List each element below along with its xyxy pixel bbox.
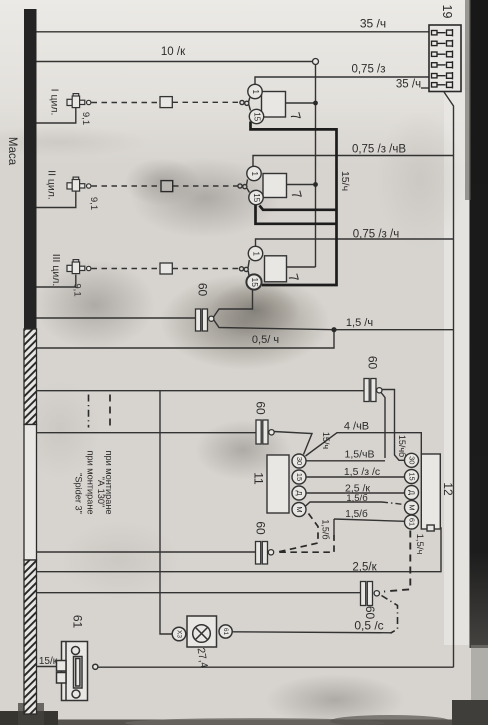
label 60 low-left (253, 521, 267, 535)
label 1 coil II (250, 171, 259, 176)
svg-text:15: 15 (408, 472, 417, 480)
svg-text:61: 61 (222, 628, 229, 636)
terminal М of 12 (408, 504, 417, 510)
svg-text:2,5/к: 2,5/к (352, 562, 377, 574)
junction node coil I feed (313, 101, 318, 106)
wire bus to connector 60 low-right (37, 592, 361, 594)
thick wire 15/ч chain (251, 122, 337, 286)
wire 1,5/б upper dashdot part (382, 502, 405, 505)
label I цил. (49, 89, 61, 116)
svg-text:1: 1 (251, 251, 260, 256)
terminal 15 of 12 (408, 472, 417, 480)
svg-text:Д: Д (408, 490, 417, 495)
wire connector 60 to regulator 11 (274, 432, 313, 455)
legend dashdot sample Spider3 (88, 395, 90, 428)
ground bus hatched section 1 (24, 329, 37, 425)
svg-text:"А 130": "А 130" (96, 477, 106, 508)
svg-text:III цил.: III цил. (50, 254, 62, 287)
wire bus to connector 60 coil feed (37, 317, 196, 319)
svg-text:19: 19 (440, 5, 454, 19)
wire 0,75/з/ч coil III (256, 239, 454, 247)
lamp terminal Х3 (175, 630, 182, 638)
legend text при монтиране Spider 3 (74, 450, 96, 514)
label 60 mid-right (365, 356, 379, 370)
scan black edge right (465, 0, 488, 700)
label 60 low-right (363, 606, 377, 620)
terminal Д of 12 (408, 490, 417, 495)
svg-text:0,75 /з: 0,75 /з (351, 64, 385, 76)
svg-text:60: 60 (365, 356, 379, 370)
dashed wire plug I HT lead (92, 101, 240, 103)
connector 60 mid-left (256, 420, 274, 444)
wire plug III ground (37, 275, 76, 288)
svg-text:12: 12 (441, 482, 455, 496)
label 60 mid-left (253, 401, 267, 415)
label 7 coil II (288, 189, 304, 200)
label 1 coil III (251, 251, 260, 256)
open terminal 10/к node (313, 59, 319, 65)
label Маса (6, 137, 18, 166)
dashed wire net А130 12 to connector low (384, 531, 410, 592)
svg-text:1,5 /ч: 1,5 /ч (346, 317, 373, 329)
label 27,4 (195, 647, 210, 669)
svg-text:60: 60 (253, 521, 267, 535)
svg-text:61: 61 (70, 615, 84, 629)
label II цил. (46, 170, 58, 200)
svg-text:4 /чВ: 4 /чВ (344, 421, 369, 433)
svg-text:60: 60 (195, 283, 209, 297)
label 9,1 plug II (88, 197, 99, 210)
svg-text:30: 30 (408, 456, 417, 464)
wire 60 fork left branch (381, 392, 385, 458)
fuse box 61 (57, 642, 98, 701)
label 60 coil feed (195, 283, 209, 297)
label 7 coil I (287, 111, 303, 122)
svg-text:1: 1 (251, 89, 260, 94)
wire bus row to connector 60 left (37, 432, 257, 434)
indicator lamp 27,4 (172, 616, 232, 647)
svg-text:"Spider 3": "Spider 3" (74, 473, 84, 514)
svg-text:0,5/ ч: 0,5/ ч (252, 334, 279, 346)
label 1 coil I (251, 89, 260, 94)
wire 1,5/чВ (306, 460, 385, 462)
label 19 (440, 5, 454, 19)
legend text при монтиране А130 (96, 450, 114, 514)
dashed wire plug II HT lead (92, 185, 238, 187)
spark plug III (67, 260, 91, 274)
suppressor resistor plug II (161, 181, 173, 192)
svg-text:11: 11 (251, 472, 265, 485)
legend dash sample А130 (109, 395, 111, 428)
dashed wire net А130 regulator to connector (277, 514, 334, 553)
wire coil I body feed (286, 102, 316, 104)
ignition coil II (7) (238, 166, 287, 204)
wire 0,75/з/чв coil II (253, 156, 454, 167)
svg-text:60: 60 (253, 401, 267, 415)
dash-dot wire Spider3 0,5/с (382, 596, 398, 634)
svg-text:9,1: 9,1 (88, 197, 99, 210)
label 7 coil III (285, 272, 301, 283)
wire connector 19 drop (444, 92, 454, 667)
label 11 (251, 472, 265, 485)
wire 4/чВ (306, 433, 422, 456)
label 9,1 plug III (71, 283, 82, 296)
wire 1,5/ч (214, 320, 454, 330)
ignition coil I (7) (240, 84, 286, 123)
terminal 30 of 11 (295, 457, 304, 465)
svg-text:15/к: 15/к (39, 656, 58, 667)
svg-text:при монтиране: при монтиране (86, 450, 96, 514)
spark plug I (67, 94, 91, 108)
wire 1,5/з/с (306, 476, 405, 478)
wire 10/к (37, 61, 313, 63)
wire coil II body feed (287, 184, 316, 186)
svg-text:1,5/ч: 1,5/ч (414, 534, 425, 555)
suppressor resistor plug I (160, 97, 172, 108)
svg-text:1,5/б: 1,5/б (346, 493, 368, 504)
svg-text:10 /к: 10 /к (161, 46, 186, 58)
switch block 12 (405, 453, 441, 531)
wire 2,5/к battery (37, 528, 442, 572)
wire bottom return (98, 666, 454, 668)
svg-text:15: 15 (295, 473, 304, 481)
terminal 30 of 12 (408, 456, 417, 464)
ground bus Масa : solid section (24, 9, 37, 329)
lamp terminal 61 (222, 628, 229, 636)
svg-text:II цил.: II цил. (46, 170, 58, 200)
ground bus open section (24, 425, 37, 561)
wire 15/к (37, 666, 57, 668)
svg-text:15/чб: 15/чб (397, 435, 407, 457)
svg-text:61: 61 (408, 518, 417, 526)
connector 19 pin rows (432, 29, 453, 89)
svg-text:М: М (295, 506, 304, 512)
wire coil III body feed (287, 266, 316, 268)
svg-text:1,5 /з /с: 1,5 /з /с (344, 466, 380, 478)
regulator block 11 (267, 454, 306, 517)
svg-text:1,5/б: 1,5/б (345, 508, 368, 520)
svg-text:Д: Д (295, 490, 304, 495)
wire labels horizontal (39, 17, 421, 668)
wire stub to dashed net (333, 519, 335, 535)
svg-text:15: 15 (252, 193, 261, 202)
svg-text:1,5/чВ: 1,5/чВ (345, 449, 375, 461)
rotated wire labels (321, 171, 425, 554)
label III цил. (50, 254, 62, 287)
multipin connector 19 (429, 25, 461, 92)
svg-text:I цил.: I цил. (49, 89, 61, 116)
connector 60 low-left (256, 542, 274, 565)
svg-text:М: М (408, 504, 417, 510)
label 9,1 plug I (80, 112, 91, 125)
ground bus hatched section 2 (24, 560, 37, 714)
suppressor resistor plug III (160, 263, 172, 274)
wire lamp feed vertical (160, 391, 172, 634)
svg-text:Маса: Маса (6, 137, 18, 166)
terminal 61 of 12 (408, 518, 417, 526)
wire stub row6 (421, 87, 429, 89)
dashed wire plug III HT lead (92, 268, 239, 270)
wire lamp to net (232, 632, 392, 633)
svg-text:1,5/б: 1,5/б (321, 519, 331, 539)
junction node 0,5/ч branch (331, 327, 336, 332)
wire 1,5/б lower (334, 519, 405, 521)
wire 35/ч top (37, 31, 430, 33)
label 15 coil II (252, 193, 261, 202)
svg-text:15/ч: 15/ч (339, 171, 351, 191)
wire 0,5/ч (37, 330, 335, 348)
svg-text:35 /ч: 35 /ч (360, 17, 386, 31)
supply vertical node (315, 65, 317, 267)
label 15 coil I (252, 112, 261, 121)
junction node coil II feed (313, 182, 318, 187)
wire bus row to connector 60 mid (37, 390, 365, 392)
svg-text:35 /ч: 35 /ч (396, 79, 421, 91)
svg-text:Х3: Х3 (175, 630, 182, 638)
wire 1,5/б upper solid part (305, 502, 382, 507)
label 61 fuse box (70, 615, 84, 629)
wire 60 fork right branch to 12 (381, 390, 405, 461)
wire 2,5/к mid (306, 492, 405, 494)
wire 0,75/з coil I to connector (255, 77, 429, 85)
ignition coil III (7) (239, 246, 286, 289)
label 12 (441, 482, 455, 496)
wire bus to connector 60 low-left (37, 551, 256, 553)
spark plug II (67, 177, 91, 191)
svg-text:0,75 /з /чВ: 0,75 /з /чВ (352, 144, 406, 156)
connector 60 coil feed (196, 309, 214, 331)
svg-text:9,1: 9,1 (80, 112, 91, 125)
terminal Д of 11 (295, 490, 304, 495)
wire plug I ground (37, 108, 76, 123)
connector 60 low-right (361, 582, 380, 606)
scan dark bottom edge (0, 700, 488, 725)
label 15 coil III (250, 277, 260, 287)
svg-text:0,75 /з /ч: 0,75 /з /ч (353, 229, 399, 241)
connector 60 mid-right (364, 379, 382, 402)
terminal 15 of 11 (295, 473, 304, 481)
svg-text:15/ч: 15/ч (321, 432, 331, 450)
svg-text:30: 30 (295, 457, 304, 465)
svg-text:15: 15 (250, 277, 260, 287)
svg-text:15: 15 (252, 112, 261, 121)
svg-text:60: 60 (363, 606, 377, 620)
svg-text:9,1: 9,1 (71, 283, 82, 296)
wire plug II ground (37, 191, 76, 208)
svg-text:1: 1 (250, 171, 259, 176)
wire coil III 15 link (214, 290, 253, 317)
terminal М of 11 (295, 506, 304, 512)
svg-text:0,5 /с: 0,5 /с (354, 619, 383, 633)
